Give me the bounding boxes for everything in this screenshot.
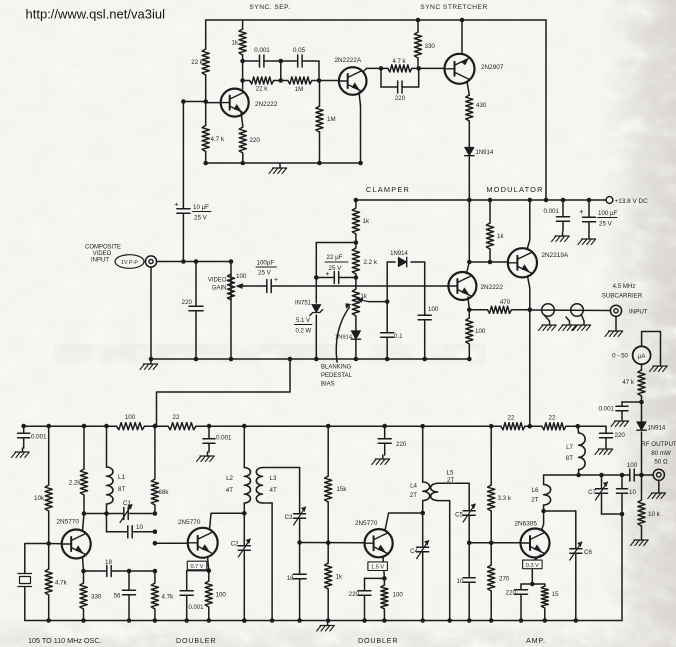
wire Q6 emitter: [83, 557, 84, 571]
svg-text:C6: C6: [584, 549, 592, 556]
ellipse 1V P-P: [115, 255, 144, 269]
svg-text:4.7k: 4.7k: [55, 580, 68, 587]
node 100 bottom: [207, 618, 212, 623]
svg-text:15k: 15k: [337, 486, 348, 493]
node Q8 emitter junction: [382, 576, 387, 581]
wire doubler2 base row: [300, 542, 365, 544]
svg-text:µA: µA: [638, 354, 645, 360]
capacitor C7 variable: [601, 475, 603, 480]
resistor 100 (rail feed): [106, 425, 117, 427]
resistor 4.7k (stretcher coupling): [381, 67, 388, 69]
capacitor 0.1: [386, 320, 388, 333]
svg-text:330: 330: [91, 594, 102, 601]
node 10 cap top: [620, 473, 625, 478]
ground (coax 1): [544, 315, 550, 321]
ground (subcarrier input): [615, 316, 617, 327]
ground (doubler rail): [207, 452, 209, 456]
svg-text:220: 220: [396, 441, 407, 448]
resistor 1k (modulator): [489, 200, 491, 223]
wire amp supply rail: [22, 425, 106, 427]
svg-text:25 V: 25 V: [194, 215, 208, 222]
node L4 bottom junction: [420, 511, 425, 516]
wire C7 bottom row: [602, 513, 623, 515]
svg-text:0.7 V: 0.7 V: [190, 564, 203, 570]
svg-text:100: 100: [475, 328, 486, 335]
node rail d2 junctions: [242, 618, 247, 623]
wire Q2 emitter down: [359, 92, 361, 106]
svg-text:DOUBLER: DOUBLER: [358, 636, 398, 645]
wire diode to modulator junction: [468, 157, 470, 262]
svg-text:50 Ω: 50 Ω: [654, 459, 668, 466]
potentiometer 1k (pedestal): [355, 278, 357, 290]
svg-text:1.5 V: 1.5 V: [371, 565, 384, 571]
ground (0.001 bypass): [562, 232, 564, 236]
svg-text:0.001: 0.001: [31, 434, 47, 441]
node L3 return bottom: [270, 618, 275, 623]
svg-text:1N914: 1N914: [648, 426, 666, 432]
resistor 22k (horizontal): [243, 80, 250, 82]
node Q4 emitter junction: [467, 308, 472, 313]
transistor Q9 2N6305 (amplifier): [521, 529, 550, 558]
transistor Q6 2N5770 (oscillator): [62, 530, 91, 559]
svg-text:4T: 4T: [226, 487, 233, 494]
wire RF output line: [544, 474, 624, 476]
resistor 4.7k (sync sep lower bias): [205, 102, 207, 126]
resistor 220 (Q1 emitter): [242, 126, 244, 127]
transistor Q5 2N2219A (modulator): [508, 248, 537, 277]
node video line/220: [194, 259, 199, 264]
svg-text:430: 430: [476, 102, 487, 109]
svg-text:56: 56: [114, 593, 121, 600]
node Q osc base: [46, 541, 51, 546]
svg-text:22 µF: 22 µF: [327, 254, 343, 261]
resistor 22 (amp rail b): [530, 425, 542, 427]
wire clamper ground rail: [151, 358, 469, 360]
capacitor 0.001 (osc rail left): [21, 424, 26, 429]
wire Q4 collector: [467, 262, 470, 274]
svg-text:2N2222: 2N2222: [255, 101, 278, 108]
capacitor 10 (feedback): [107, 531, 128, 533]
svg-text:0.001: 0.001: [599, 406, 615, 413]
svg-text:80 mW: 80 mW: [651, 450, 671, 457]
wire to 0.001: [622, 401, 642, 403]
resistor 270: [490, 543, 492, 565]
node amp 15 bottom: [543, 618, 548, 623]
svg-text:10 µF: 10 µF: [193, 204, 209, 211]
node video line/10uF: [181, 259, 186, 264]
svg-text:18: 18: [105, 559, 112, 566]
capacitor 0.001 (meter bypass): [621, 402, 623, 406]
inductor L4 2T: [420, 424, 425, 429]
resistor 330 (osc emitter): [83, 571, 85, 583]
svg-text:220: 220: [615, 432, 626, 439]
svg-text:100: 100: [428, 306, 439, 313]
node fb base tap: [153, 541, 158, 546]
wire Q1 emitter to 220: [241, 112, 243, 126]
wire base of 2N2222A: [319, 80, 339, 82]
svg-text:C4: C4: [410, 548, 418, 555]
node 220 bottom: [194, 357, 199, 362]
svg-text:CLAMPER: CLAMPER: [366, 185, 410, 194]
node L5 return bottom: [447, 618, 452, 623]
svg-text:1k: 1k: [231, 40, 238, 47]
svg-text:AMP.: AMP.: [526, 636, 546, 645]
node rail/jog: [153, 424, 158, 429]
svg-text:2.2 k: 2.2 k: [364, 259, 378, 266]
wire input jack to ground rail: [150, 267, 152, 359]
wire Q1 base lead: [206, 102, 221, 104]
capacitor 220 (doubler2 rail bypass): [382, 424, 387, 429]
node stretcher drop at rail: [544, 198, 549, 203]
svg-text:2N5770: 2N5770: [355, 520, 378, 527]
svg-text:http://www.qsl.net/va3iul: http://www.qsl.net/va3iul: [26, 7, 166, 22]
node 100 bottom: [467, 357, 472, 362]
wire junction drop: [280, 61, 282, 81]
connector video input jack: [145, 256, 156, 267]
node L1 bottom: [104, 511, 109, 516]
node 47k bottom: [639, 400, 644, 405]
svg-text:SUBCARRIER: SUBCARRIER: [602, 293, 643, 300]
capacitor C4 variable: [422, 536, 424, 547]
wire pot wiper arrow: [369, 301, 387, 303]
meter 0-50 uA: [633, 346, 651, 364]
resistor 2.2k: [355, 243, 357, 249]
svg-text:DOUBLER: DOUBLER: [176, 636, 216, 645]
svg-text:0.1: 0.1: [394, 333, 403, 340]
svg-text:GAIN: GAIN: [212, 286, 227, 292]
connector RF output jack: [653, 469, 664, 480]
wire modulator junction drop: [469, 261, 490, 263]
svg-text:220: 220: [395, 95, 406, 102]
resistor 3.3k: [490, 426, 492, 485]
wire B+ jog from clamper rail: [157, 359, 291, 426]
svg-text:L3: L3: [270, 475, 277, 482]
wire diode left drop: [386, 262, 388, 302]
wire Q7 collector: [210, 513, 245, 529]
capacitor 100 output (series): [624, 474, 630, 476]
node emitter row right: [153, 569, 158, 574]
node modulator 1k top: [488, 198, 493, 203]
svg-text:22 k: 22 k: [191, 59, 204, 66]
node 0.1 bottom: [385, 357, 390, 362]
inductor L1 8T: [106, 426, 108, 467]
node C4 bottom: [420, 618, 425, 623]
capacitor 0.001 (doubler1 emitter): [186, 580, 188, 591]
node output caps bottom: [620, 512, 625, 517]
capacitor 10 (amp input): [468, 568, 470, 578]
node osc collector junction: [82, 511, 87, 516]
node wiper junction: [385, 299, 390, 304]
svg-text:5.1 V: 5.1 V: [296, 318, 310, 324]
svg-text:1M: 1M: [295, 86, 304, 93]
wire collector column: [242, 61, 244, 89]
wire base of 2N2907: [419, 67, 445, 69]
svg-text:2T: 2T: [531, 497, 538, 504]
inductor L5 2T: [431, 483, 438, 500]
wire Q5 emitter down to amp rail: [528, 276, 530, 426]
resistor 22 (amp rail a): [496, 425, 501, 427]
capacitor 220 (amp emitter): [520, 584, 522, 586]
svg-text:100: 100: [236, 273, 247, 280]
capacitor C6 variable: [575, 511, 577, 535]
resistor 430: [468, 94, 470, 96]
capacitor 100uF 25V (rail bypass): [587, 198, 592, 203]
capacitor 220 (d2 emitter): [364, 585, 366, 591]
wire Q4 emitter: [468, 297, 469, 310]
svg-text:C2: C2: [231, 541, 239, 548]
resistor 68k column: [153, 424, 158, 429]
wire to 2219A base: [490, 261, 508, 263]
node C6 bottom: [574, 618, 579, 623]
ground (sync sep): [279, 164, 281, 168]
node base/10uF junction: [181, 99, 186, 104]
transistor Q2 2N2222A: [339, 67, 367, 95]
wire L4 column to rail: [422, 513, 424, 536]
node C1 right: [153, 511, 158, 516]
transistor Q8 2N5770 (doubler 2): [365, 529, 393, 557]
node C3/base junction: [297, 540, 302, 545]
transistor Q4 2N2222 (clamp driver): [448, 272, 476, 300]
svg-text:2N2222: 2N2222: [481, 284, 504, 291]
svg-text:L7: L7: [566, 444, 573, 451]
node emitter row mid: [127, 569, 132, 574]
wire Q2 collector to 4.7k: [363, 68, 367, 72]
svg-text:4 7 k: 4 7 k: [392, 59, 406, 65]
wire Q7 emitter: [208, 557, 209, 571]
wire 2907 emitter to rail: [461, 20, 463, 54]
svg-text:L1: L1: [118, 474, 125, 481]
node amp base junction: [489, 541, 494, 546]
svg-text:68k: 68k: [159, 489, 170, 496]
svg-text:+: +: [174, 200, 179, 209]
wire Q6 base: [49, 543, 62, 545]
node cap100 bottom: [422, 357, 427, 362]
node 4.7k left: [379, 66, 384, 71]
node 10 right: [153, 529, 158, 534]
svg-text:BIAS: BIAS: [321, 382, 335, 388]
svg-text:4.7 k: 4.7 k: [211, 136, 225, 143]
wire collector row: [84, 513, 107, 515]
resistor 100 (modulator emitter): [468, 310, 470, 318]
svg-text:220: 220: [349, 591, 360, 598]
wire Q8 collector: [385, 513, 423, 531]
node emitter row left: [81, 569, 86, 574]
svg-text:10 k: 10 k: [648, 511, 661, 518]
voltage label 1.5V: [368, 562, 388, 571]
node emitter/470 junction: [528, 308, 533, 313]
svg-text:10k: 10k: [34, 495, 45, 502]
node clamper diode bottom: [354, 357, 359, 362]
resistor 100 (d2 emitter): [383, 578, 385, 585]
svg-text:COMPOSITE: COMPOSITE: [85, 245, 121, 251]
wire 0.05 right elbow: [318, 61, 320, 81]
svg-text:0.001: 0.001: [544, 208, 560, 215]
ground (coax 2): [566, 317, 570, 321]
svg-text:22: 22: [508, 415, 515, 422]
wire gain wiper arrow: [243, 285, 263, 287]
wire 22uF top bracket: [316, 242, 356, 244]
node video pot top: [229, 259, 234, 264]
node d2 1k bottom: [326, 618, 331, 623]
node Q7 emitter junction: [207, 568, 212, 573]
node fb column bottom: [153, 618, 158, 623]
capacitor 100 (clamper): [424, 300, 426, 315]
svg-text:22 k: 22 k: [256, 86, 269, 93]
node zener bottom: [314, 357, 319, 362]
wire collector to C6: [544, 510, 576, 512]
node 330 bottom: [81, 618, 86, 623]
resistor 1M (horizontal): [281, 80, 288, 82]
capacitor 220 (L7 rail bypass): [604, 425, 606, 427]
svg-text:8T: 8T: [566, 455, 573, 462]
svg-text:330: 330: [425, 43, 436, 50]
svg-text:2.2k: 2.2k: [69, 480, 82, 487]
svg-text:INPUT: INPUT: [629, 309, 648, 316]
svg-text:25 V: 25 V: [329, 265, 343, 272]
resistor 15k: [327, 426, 329, 476]
ground (meter): [660, 362, 662, 366]
wire output column to ground rail: [621, 514, 623, 621]
resistor 1M (vertical to ground rail): [319, 81, 321, 107]
transistor Q1 2N2222 (sync separator): [221, 89, 249, 117]
svg-text:1M: 1M: [327, 116, 336, 123]
svg-text:2N5770: 2N5770: [178, 519, 201, 526]
node 22k/1M junction: [279, 78, 284, 83]
wire C5 column: [468, 483, 470, 503]
svg-text:C7: C7: [588, 489, 596, 496]
capacitor C2 variable: [243, 535, 245, 546]
wire C3 column: [299, 468, 301, 506]
svg-text:22: 22: [549, 415, 556, 422]
svg-text:IN751: IN751: [295, 301, 312, 307]
svg-text:SYNC. SEP.: SYNC. SEP.: [249, 4, 290, 11]
capacitor C5 variable: [468, 503, 470, 511]
node 2.2k top: [82, 424, 87, 429]
node 1k/2.2k junction: [354, 240, 359, 245]
svg-text:2N2219A: 2N2219A: [542, 252, 569, 259]
voltage label 0.3V: [523, 560, 543, 569]
svg-text:0 - 50: 0 - 50: [612, 353, 628, 360]
wire emitter to 0.001: [187, 570, 209, 572]
svg-text:220: 220: [506, 590, 517, 597]
node 220 bottom: [241, 161, 246, 166]
svg-text:1V P-P: 1V P-P: [121, 260, 138, 266]
capacitor 0.001 (rail bypass): [561, 198, 566, 203]
transistor Q3 2N2907 (sync stretcher, PNP): [445, 54, 475, 84]
wire sync-sep ground rail: [206, 162, 360, 164]
node 2.2k bottom / 22uF: [354, 275, 359, 280]
resistor 1k (clamper top): [355, 200, 357, 208]
svg-text:0.3 V: 0.3 V: [526, 563, 539, 569]
svg-text:4.7k: 4.7k: [162, 594, 175, 601]
diode 1N914 (sync stretcher): [468, 145, 470, 147]
resistor 22 (rail feed): [155, 425, 168, 427]
svg-text:25 V: 25 V: [258, 270, 272, 277]
node C7 top: [599, 473, 604, 478]
node base bias junction: [203, 99, 208, 104]
wire emitter split row: [521, 583, 545, 585]
svg-text:2T: 2T: [447, 477, 454, 484]
svg-text:1N914: 1N914: [390, 251, 408, 257]
node d2 100 bottom: [382, 618, 387, 623]
svg-text:15: 15: [552, 591, 559, 598]
wire emitter to 220: [365, 577, 385, 579]
svg-text:100: 100: [393, 592, 404, 599]
node diode junction at output: [639, 473, 644, 478]
inductor L7 8T: [577, 426, 580, 433]
wire base drop to 10uF: [182, 102, 184, 207]
ground (main bottom rail): [327, 622, 329, 626]
resistor 10k: [48, 426, 50, 485]
svg-text:1k: 1k: [336, 574, 343, 581]
node L7 top: [576, 424, 581, 429]
wire L2 line to ground rail: [243, 513, 245, 535]
node 18 bottom: [297, 618, 302, 623]
node C2 bottom: [242, 618, 247, 623]
wire main ground rail: [25, 620, 622, 622]
node d2 base junction: [326, 541, 331, 546]
svg-text:L4: L4: [410, 483, 417, 490]
svg-text:0.001: 0.001: [216, 435, 232, 442]
capacitor 56: [128, 571, 130, 580]
svg-text:L2: L2: [226, 475, 233, 482]
crystal 105MHz: [18, 573, 32, 575]
node 270 bottom: [489, 618, 494, 623]
ground (RF output): [658, 480, 660, 489]
svg-text:1k: 1k: [363, 218, 370, 225]
voltage label 0.7V: [187, 561, 207, 570]
ground (10k load): [641, 536, 643, 540]
wire amp base row: [469, 542, 520, 544]
wire input to gain pot: [157, 261, 231, 263]
node video pot bottom: [229, 357, 234, 362]
wire Q8 emitter: [383, 557, 384, 579]
node 330 top: [416, 18, 421, 23]
node Q9 emitter junction: [530, 582, 535, 587]
node C5/base junction: [467, 541, 472, 546]
capacitor 0.001 (doubler rail bypass): [207, 424, 212, 429]
wire to 0.1 cap: [386, 302, 388, 320]
node L6 bottom junction: [541, 509, 546, 514]
capacitor 22uF 25V (across 2.2k): [316, 277, 334, 279]
node d2 220 bottom: [362, 618, 367, 623]
coax bead 1: [542, 304, 555, 317]
node amp rail centre: [528, 424, 533, 429]
svg-text:18: 18: [287, 575, 294, 582]
node 2N2219A collector at rail: [528, 198, 533, 203]
svg-text:100: 100: [125, 414, 136, 421]
svg-text:105 TO 110 MHz OSC.: 105 TO 110 MHz OSC.: [28, 636, 102, 645]
resistor 1k (sync sep collector): [242, 20, 244, 29]
diode 1N914 (RF detector): [641, 402, 643, 421]
svg-text:2N2222A: 2N2222A: [335, 57, 362, 64]
node diode line at +13.8 rail: [467, 198, 472, 203]
resistor 10k (output load): [641, 475, 643, 500]
wire subcarrier line: [530, 309, 611, 312]
capacitor 10uF 25V (video to sync sep): [182, 206, 184, 209]
svg-text:L5: L5: [447, 470, 454, 477]
node 0.001/0.05 junction: [279, 59, 284, 64]
capacitor 0.05: [281, 60, 298, 62]
wire Q9 collector: [542, 511, 544, 531]
connector 4.5MHz subcarrier input: [610, 305, 621, 316]
svg-text:1k: 1k: [497, 233, 504, 240]
svg-text:SYNC STRETCHER: SYNC STRETCHER: [420, 4, 487, 11]
ground (video input): [149, 357, 154, 362]
svg-text:220: 220: [250, 137, 261, 144]
svg-text:BLANKING: BLANKING: [321, 365, 352, 371]
resistor 330 (stretcher base pullup): [417, 20, 419, 32]
